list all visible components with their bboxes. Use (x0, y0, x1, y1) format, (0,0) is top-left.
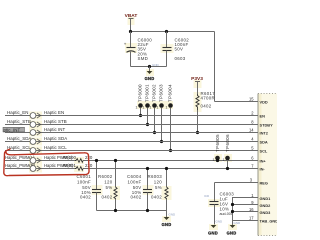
connector flag Haptic_SDA (7, 136, 67, 144)
node R6003-row7 (165, 167, 168, 170)
pin 9 GND2 (251, 200, 271, 208)
test point TP6006 (223, 134, 231, 169)
ground (top caps) (145, 63, 160, 81)
svg-text:Haptic INT: Haptic INT (44, 127, 66, 132)
node GND3 (231, 210, 234, 213)
svg-text:GND: GND (216, 220, 224, 224)
wire TAB_GND pin (232, 220, 258, 222)
pin 5 SCL (251, 146, 268, 154)
svg-text:0603: 0603 (175, 56, 186, 61)
svg-text:TP6001: TP6001 (145, 84, 150, 102)
capacitor C6003 (210, 192, 235, 225)
wire row5 Haptic_SCL (5, 150, 258, 152)
svg-text:R6001: R6001 (63, 163, 76, 168)
resistor R6000 (63, 155, 93, 162)
connector flag Haptic_PWM(R) (5, 163, 74, 171)
wire RC bottom rail (97, 210, 167, 212)
resistor R6001 (63, 163, 93, 170)
VBAT power symbol (125, 13, 138, 32)
svg-text:100nF: 100nF (128, 180, 142, 185)
svg-text:1: 1 (166, 106, 168, 110)
pin 3 REG (250, 178, 268, 186)
svg-text:TAB_GND: TAB_GND (260, 219, 278, 224)
svg-text:1: 1 (136, 106, 138, 110)
capacitor C6000 (124, 32, 152, 67)
svg-text:50V: 50V (175, 47, 184, 52)
wire GND2 pin (232, 204, 258, 206)
test point TP6001 (143, 84, 150, 125)
node VBAT-C6000 (129, 30, 132, 33)
svg-text:8: 8 (251, 120, 254, 125)
svg-text:Haptic STB: Haptic STB (44, 119, 67, 124)
svg-text:16: 16 (249, 207, 254, 212)
svg-text:Haptic_SDA: Haptic_SDA (7, 136, 31, 141)
node TP6003 (160, 140, 163, 143)
svg-text:7: 7 (251, 164, 254, 169)
pin 6 IN+ (251, 156, 266, 164)
svg-text:ptic_INT: ptic_INT (4, 127, 21, 132)
svg-text:1: 1 (150, 106, 152, 110)
wire GND bus (232, 198, 234, 226)
svg-text:R6003: R6003 (148, 174, 163, 179)
svg-text:TP6003: TP6003 (159, 84, 164, 102)
svg-text:R6002: R6002 (98, 174, 113, 179)
test point TP6005 (213, 134, 221, 162)
svg-text:10%: 10% (220, 207, 230, 212)
wire row3 Haptic_INT (5, 132, 258, 134)
svg-text:INT2: INT2 (260, 131, 269, 136)
node R6002-rail (114, 209, 117, 212)
node GND2 (231, 203, 234, 206)
node TP6001 (146, 123, 149, 126)
svg-text:3: 3 (250, 178, 253, 183)
wire row1 Haptic_EN (5, 115, 258, 117)
ground (RC rail) (162, 211, 176, 228)
test point TP6004 (166, 84, 173, 151)
svg-text:GND1: GND1 (260, 196, 272, 201)
svg-text:Haptic SCL: Haptic SCL (44, 145, 67, 150)
node TP6005-row6 (216, 159, 219, 162)
svg-text:ICD: ICD (204, 194, 210, 198)
wire GND3 pin (232, 211, 258, 213)
svg-text:2: 2 (251, 111, 254, 116)
wire row7 Haptic_PWM(R) (5, 168, 75, 170)
svg-text:4: 4 (251, 137, 254, 142)
wire REG (215, 183, 259, 202)
node R6017-INT (196, 131, 199, 134)
svg-text:SCL: SCL (260, 149, 268, 154)
svg-text:6: 6 (251, 156, 254, 161)
wire VBAT rail (131, 31, 215, 33)
svg-text:IN+: IN+ (260, 159, 267, 164)
svg-text:1: 1 (213, 158, 215, 162)
capacitor C6002 (163, 32, 190, 67)
connector flag Haptic_SCL (7, 145, 67, 153)
svg-text:15: 15 (249, 97, 254, 102)
pin 1 GND1 (251, 193, 271, 201)
svg-text:GND: GND (227, 231, 237, 236)
pin 4 SDA (251, 137, 268, 145)
svg-text:120: 120 (154, 180, 162, 185)
node C6004-rail (146, 209, 149, 212)
wire VDD to pin 15 (215, 101, 259, 103)
connector flag Haptic_INT (selected) (3, 127, 66, 135)
svg-text:GND: GND (234, 221, 242, 225)
resistor R6017 (196, 91, 215, 133)
svg-text:GND: GND (169, 213, 177, 217)
svg-text:GND2: GND2 (260, 203, 272, 208)
svg-text:IN-: IN- (260, 167, 266, 172)
svg-text:GND: GND (162, 222, 172, 227)
svg-text:Haptic EN: Haptic EN (44, 110, 64, 115)
svg-text:aud-005: aud-005 (220, 212, 233, 216)
pin 2 EN (251, 111, 265, 119)
svg-text:Haptic SDA: Haptic SDA (44, 136, 67, 141)
connector flag Haptic_EN (7, 110, 64, 118)
wire row6 Haptic_PWM(L) (5, 160, 75, 162)
wire row2 Haptic_STB (5, 124, 258, 126)
svg-text:0402: 0402 (131, 195, 142, 200)
resistor R6003 (148, 169, 169, 211)
svg-text:0402: 0402 (102, 195, 113, 200)
svg-text:17: 17 (249, 216, 254, 221)
svg-text:5%: 5% (155, 185, 162, 190)
svg-text:TP6004: TP6004 (168, 84, 173, 102)
resistor R6002 (98, 161, 117, 211)
svg-text:1: 1 (157, 106, 159, 110)
capacitor C6001 (77, 161, 101, 211)
pin 17 TAB_GND (249, 216, 278, 224)
svg-text:STDBY: STDBY (260, 123, 274, 128)
wire row4 Haptic_SDA (5, 141, 258, 143)
node C6004-row7 (146, 167, 149, 170)
svg-text:+: + (124, 41, 127, 46)
svg-text:GND: GND (208, 231, 218, 236)
node R6002-row6 (114, 159, 117, 162)
P3V3 power symbol (191, 76, 203, 94)
pin 14 INT2 (249, 128, 269, 136)
svg-text:TP6000: TP6000 (138, 84, 143, 102)
svg-text:SDA: SDA (260, 140, 268, 145)
pin 8 STDBY (251, 120, 273, 128)
node TP6006-row7 (226, 167, 229, 170)
svg-text:GND: GND (152, 63, 160, 67)
wire GND1 pin (232, 197, 258, 199)
pin 15 VDD (249, 97, 268, 105)
svg-text:Haptic_SCL: Haptic_SCL (7, 145, 31, 150)
svg-text:120: 120 (104, 180, 112, 185)
svg-text:0402: 0402 (151, 195, 162, 200)
svg-text:TP6005: TP6005 (215, 134, 220, 152)
svg-text:4700R: 4700R (201, 96, 215, 101)
svg-text:100nF: 100nF (77, 180, 91, 185)
node TP6004 (169, 149, 172, 152)
test point TP6000 (136, 84, 143, 116)
svg-text:TP6006: TP6006 (225, 134, 230, 152)
svg-text:5%: 5% (106, 185, 113, 190)
wire cap bottom rail (131, 66, 167, 68)
IC U6000 haptic driver body (clipped at right edge) (258, 94, 277, 236)
svg-text:GND3: GND3 (260, 210, 272, 215)
svg-text:1: 1 (223, 158, 225, 162)
svg-text:0402: 0402 (80, 195, 91, 200)
wire VDD feed down (214, 32, 216, 102)
svg-text:0402: 0402 (201, 104, 212, 109)
svg-text:R6000: R6000 (63, 155, 76, 160)
test point TP6003 (157, 84, 164, 142)
connector flag Haptic_PWM(L) (5, 155, 73, 163)
svg-text:GND: GND (145, 76, 155, 81)
test point TP6002 (150, 84, 157, 133)
svg-text:14: 14 (249, 128, 254, 133)
pin 16 GND3 (249, 207, 271, 215)
ground (GND bus) (227, 221, 241, 236)
connector flag Haptic_STB (7, 119, 67, 127)
svg-text:Haptic_EN: Haptic_EN (7, 110, 28, 115)
svg-text:5: 5 (251, 146, 254, 151)
svg-text:1: 1 (143, 106, 145, 110)
node TP6000 (139, 114, 142, 117)
pin 7 IN- (251, 164, 265, 172)
node cap-gnd (148, 65, 151, 68)
ground (C6003) (208, 220, 223, 236)
svg-text:TP6002: TP6002 (152, 84, 157, 102)
svg-text:Haptic_STB: Haptic_STB (7, 119, 31, 124)
svg-text:VDD: VDD (260, 100, 268, 105)
svg-text:SMD: SMD (138, 56, 149, 61)
svg-text:EN: EN (260, 114, 266, 119)
highlight boxes (29, 17, 237, 230)
node C6001-row6 (95, 159, 98, 162)
node VBAT-C6002 (165, 30, 168, 33)
node TP6002 (153, 131, 156, 134)
svg-text:C6004: C6004 (127, 174, 142, 179)
svg-text:REG: REG (260, 181, 268, 186)
capacitor C6004 (127, 169, 152, 211)
red annotation around PWM nets (4, 149, 89, 176)
